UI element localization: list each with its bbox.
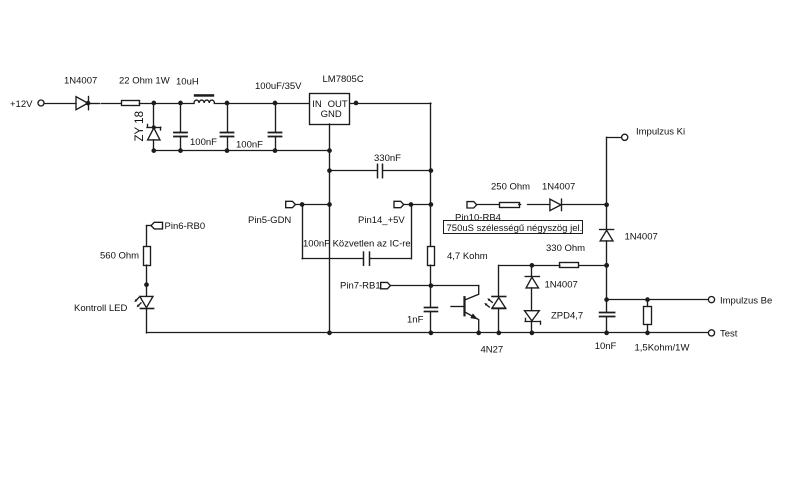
wire +12V to D1 (44, 103, 76, 105)
wire +5V vertical net (430, 103, 432, 246)
svg-text:330nF: 330nF (374, 153, 401, 164)
svg-text:1N4007: 1N4007 (542, 182, 575, 193)
wire L1 to LM7805 (214, 103, 309, 105)
wire Impulzus Be row (604, 297, 708, 302)
capacitor C2 100nF (221, 103, 234, 151)
svg-text:Pin5-GDN: Pin5-GDN (248, 215, 291, 226)
diode 1N4007 (clamp, upper) (525, 265, 539, 310)
capacitor 10nF (600, 300, 615, 333)
svg-text:+12V: +12V (10, 99, 33, 110)
node junction at C1 top (178, 101, 183, 106)
svg-text:IN: IN (312, 99, 322, 110)
svg-text:100nF Közvetlen az IC-re: 100nF Közvetlen az IC-re (303, 239, 411, 250)
inductor L1 10uH (194, 94, 215, 103)
terminal Impulzus Ki (607, 134, 628, 140)
wire D1 to R1 (89, 103, 121, 105)
svg-text:1nF: 1nF (407, 314, 424, 325)
zener ZY 18 (147, 103, 161, 151)
wire mid ground rail (154, 150, 330, 152)
svg-text:250 Ohm: 250 Ohm (491, 182, 530, 193)
svg-text:100nF: 100nF (190, 137, 217, 148)
pin flag Pin14_+5V (394, 201, 433, 207)
svg-text:1N4007: 1N4007 (64, 76, 97, 87)
resistor 4,7 Kohm (428, 247, 435, 286)
svg-text:560 Ohm: 560 Ohm (100, 251, 139, 262)
svg-text:Impulzus Ki: Impulzus Ki (636, 127, 685, 138)
node junction at Pin10 wire (604, 202, 609, 207)
svg-text:Test: Test (720, 328, 738, 339)
resistor 250 Ohm (500, 203, 520, 208)
svg-text:GND: GND (321, 109, 342, 120)
node junction at ZY18 top (151, 101, 156, 106)
LED of optocoupler 4N27 (484, 265, 505, 333)
svg-text:LM7805C: LM7805C (323, 74, 364, 85)
node dots on mid rail (151, 148, 331, 153)
wire 250 Ohm to diode (519, 204, 550, 206)
terminal +12V (38, 100, 44, 106)
pin flag Pin6-RB0 (147, 222, 163, 229)
capacitor 1nF (425, 286, 438, 333)
zener ZPD4,7 (525, 311, 541, 333)
svg-text:4N27: 4N27 (481, 344, 504, 355)
wire LM7805 OUT (350, 103, 431, 105)
wire GND vertical net (329, 151, 331, 333)
wire bottom ground rail (147, 332, 709, 334)
diode 1N4007 (series to Impulzus Ki) (550, 199, 607, 211)
terminal Test (708, 330, 714, 336)
node dots on bottom rail (327, 331, 650, 336)
svg-text:330 Ohm: 330 Ohm (546, 243, 585, 254)
node junction at OUT pin (354, 101, 359, 106)
transistor Q1 (4N27 output) (451, 286, 479, 333)
capacitor C1 100nF (174, 103, 187, 151)
wire Impulzus Ki vertical (606, 137, 608, 229)
node 750uS note box (444, 221, 583, 234)
svg-text:Pin6-RB0: Pin6-RB0 (165, 221, 206, 232)
svg-text:10nF: 10nF (595, 341, 617, 352)
svg-text:ZPD4,7: ZPD4,7 (551, 311, 583, 322)
resistor 560 Ohm (144, 226, 151, 297)
resistor 330 Ohm (499, 263, 609, 268)
svg-text:Impulzus Be: Impulzus Be (720, 295, 772, 306)
pin flag Pin10-RB4 (467, 202, 499, 208)
wire R1 to L1 (139, 103, 194, 105)
capacitor 100nF at IC (302, 205, 411, 266)
svg-text:100uF/35V: 100uF/35V (255, 81, 302, 92)
pin flag Pin7-RB1 (381, 282, 479, 288)
LED Kontroll (134, 296, 153, 333)
svg-text:750uS szélességű négyszög jel.: 750uS szélességű négyszög jel. (447, 223, 583, 234)
svg-text:Pin7-RB1: Pin7-RB1 (340, 281, 381, 292)
capacitor C3 100uF/35V (269, 103, 282, 151)
wire LM7805 GND pin (329, 124, 331, 151)
svg-text:Kontroll LED: Kontroll LED (74, 303, 127, 314)
svg-text:ZY 18: ZY 18 (134, 111, 146, 141)
diode 1N4007 (vertical on output net) (600, 230, 614, 300)
svg-text:4,7 Kohm: 4,7 Kohm (447, 251, 488, 262)
svg-text:10uH: 10uH (176, 77, 199, 88)
terminal Impulzus Be (708, 297, 714, 303)
op-amp U1 LM7805C regulator box (310, 94, 350, 125)
resistor 1,5Kohm/1W (644, 300, 652, 333)
svg-text:22 Ohm 1W: 22 Ohm 1W (119, 76, 170, 87)
svg-text:Pin14_+5V: Pin14_+5V (358, 215, 405, 226)
diode 1N4007 D1 (76, 97, 90, 110)
pin flag Pin5-GDN (286, 201, 332, 207)
capacitor 330nF (327, 164, 433, 177)
svg-text:1N4007: 1N4007 (625, 231, 658, 242)
svg-text:1N4007: 1N4007 (545, 280, 578, 291)
svg-text:OUT: OUT (328, 99, 348, 110)
svg-text:1,5Kohm/1W: 1,5Kohm/1W (635, 342, 690, 353)
node junction at C3 top (273, 101, 278, 106)
node junction at C2 top (225, 101, 230, 106)
resistor R1 22 Ohm 1W (122, 101, 140, 106)
svg-text:100nF: 100nF (236, 139, 263, 150)
